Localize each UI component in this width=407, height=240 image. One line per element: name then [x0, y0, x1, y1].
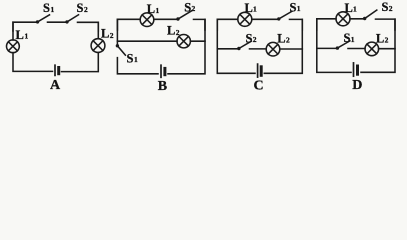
svg-text:2: 2 — [385, 36, 389, 45]
wire D top-middle — [350, 18, 365, 20]
label C — [254, 79, 264, 94]
wire A left upper — [12, 22, 14, 40]
svg-text:L: L — [345, 1, 353, 15]
svg-text:C: C — [254, 79, 264, 91]
battery (C) — [258, 64, 262, 77]
switch S2 (A) — [65, 15, 78, 24]
switch S2 (D) — [363, 10, 377, 20]
lamp L1 (D) — [336, 12, 350, 26]
wire B left lower — [117, 58, 158, 74]
wire D middle — [348, 48, 365, 50]
svg-text:S: S — [77, 1, 84, 15]
label L2 (D) — [376, 31, 389, 45]
battery (B) — [161, 65, 165, 77]
wire A top-middle — [48, 21, 68, 23]
svg-text:2: 2 — [84, 5, 88, 14]
switch S1 (D) — [336, 41, 350, 50]
wire B top-middle — [154, 18, 178, 20]
svg-text:1: 1 — [25, 31, 29, 40]
wire A top-left — [13, 22, 38, 31]
wire D right — [361, 19, 395, 72]
svg-text:S: S — [382, 0, 389, 14]
node D middle-left — [317, 47, 338, 49]
switch S2 (B) — [176, 11, 192, 21]
label L1 (C) — [245, 1, 258, 15]
lamp L1 (A) — [6, 40, 19, 53]
wire D left — [317, 19, 351, 73]
label D — [352, 78, 362, 93]
svg-text:2: 2 — [253, 35, 257, 44]
label S1 (B) — [127, 51, 139, 65]
svg-text:1: 1 — [156, 6, 160, 15]
svg-text:S: S — [43, 1, 50, 15]
label L1 (D) — [345, 1, 358, 15]
svg-text:2: 2 — [286, 36, 290, 45]
svg-text:S: S — [184, 0, 191, 14]
svg-text:S: S — [127, 51, 134, 65]
wire B right — [168, 19, 205, 73]
wire B left upper — [116, 19, 118, 46]
switch S1 (A) — [36, 15, 50, 24]
label S1 (C) — [290, 0, 301, 14]
lamp L2 (C) — [266, 42, 280, 56]
svg-text:S: S — [290, 0, 297, 14]
label S1 (A) — [43, 1, 55, 15]
svg-text:2: 2 — [110, 31, 114, 40]
svg-text:2: 2 — [192, 4, 196, 13]
wire A left lower — [13, 53, 53, 72]
svg-text:S: S — [344, 31, 351, 45]
svg-text:L: L — [167, 24, 175, 38]
svg-text:D: D — [352, 78, 362, 91]
svg-text:L: L — [147, 2, 155, 16]
svg-text:1: 1 — [351, 35, 355, 44]
label L2 (B) — [167, 24, 180, 38]
svg-text:1: 1 — [134, 55, 138, 64]
lamp L2 (D) — [365, 42, 379, 56]
svg-text:L: L — [277, 31, 285, 45]
lamp L2 (B) — [177, 35, 190, 48]
lamp L1 (C) — [238, 12, 252, 26]
label S1 (D) — [344, 31, 355, 45]
wire B top-left — [117, 19, 140, 30]
lamp L2 (A) — [91, 39, 105, 53]
wire D top-right — [376, 19, 396, 30]
svg-text:2: 2 — [389, 4, 393, 13]
svg-text:L: L — [16, 28, 24, 42]
battery (D) — [354, 63, 358, 76]
label L2 (C) — [277, 31, 290, 45]
wire C right — [264, 19, 302, 73]
label S2 (C) — [246, 31, 257, 45]
wire D top-left — [317, 19, 336, 30]
wire C middle-right — [280, 48, 303, 50]
label S2 (D) — [382, 0, 393, 14]
switch S1 (B) — [116, 44, 126, 55]
svg-text:1: 1 — [253, 5, 257, 14]
label S2 (B) — [184, 0, 195, 14]
svg-text:2: 2 — [176, 28, 180, 37]
wire C middle — [250, 48, 267, 50]
node B middle-left — [117, 40, 177, 42]
battery (A) — [55, 65, 59, 75]
svg-text:A: A — [50, 78, 61, 91]
lamp L1 (B) — [140, 13, 154, 27]
wire B top-right — [194, 19, 206, 30]
label B — [158, 79, 167, 94]
label L1 (B) — [147, 2, 160, 16]
wire C top-middle — [252, 18, 279, 20]
wire C top-right — [290, 19, 303, 30]
label L1 (A) — [16, 28, 29, 42]
label A — [50, 78, 61, 93]
label S2 (A) — [77, 1, 89, 15]
wire D middle-right — [379, 48, 395, 50]
svg-text:S: S — [246, 31, 253, 45]
switch S2 (C) — [237, 41, 251, 50]
svg-text:L: L — [101, 27, 109, 41]
svg-text:B: B — [158, 79, 167, 91]
svg-text:L: L — [376, 31, 384, 45]
wire C top-left — [217, 19, 238, 30]
wire A right — [62, 22, 99, 71]
label L2 (A) — [101, 27, 114, 41]
svg-text:1: 1 — [51, 5, 55, 14]
switch S1 (C) — [277, 11, 292, 20]
svg-text:1: 1 — [353, 5, 357, 14]
node C middle-left — [217, 48, 239, 50]
wire A top-right — [78, 22, 99, 31]
wire C left — [217, 19, 255, 73]
svg-text:1: 1 — [297, 4, 301, 13]
wire B middle-right — [190, 40, 205, 42]
svg-text:L: L — [245, 1, 253, 15]
